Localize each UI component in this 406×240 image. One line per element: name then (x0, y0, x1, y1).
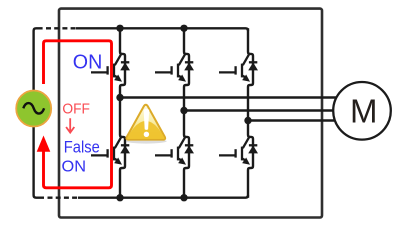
wire: phase A line to motor (120, 96, 341, 98)
warning icon exclamation dot (144, 132, 149, 137)
wire: DC+ rail solid to leg C corner (76, 28, 248, 30)
arrow glyph down (state transition) (66, 118, 74, 132)
node: phase B tap on leg B (180, 107, 187, 114)
wire: leg C vertical with diode jogs (248, 28, 253, 197)
wire: phase C line to motor (248, 119, 345, 121)
wire: phase B line to motor (184, 109, 342, 111)
node: phase C tap on leg C (244, 117, 251, 124)
wire: leg A vertical with diode jogs (120, 28, 125, 197)
svg-text:M: M (350, 92, 378, 129)
warning icon triangle (126, 105, 165, 140)
node: DC+ rail / leg B junction (180, 25, 187, 32)
red current direction arrowhead (37, 136, 51, 152)
svg-text:ON: ON (62, 158, 87, 175)
IGBT Q1 upper leg A with freewheel diode (91, 55, 129, 81)
wire: leg B vertical with diode jogs (184, 28, 189, 197)
node: DC- rail / leg A junction (116, 194, 123, 201)
wire: DC+ rail dashed segment (46, 27, 76, 29)
warning icon shadow (126, 139, 167, 144)
AC source V1 (16, 91, 51, 127)
warning icon gloss lower dome (127, 121, 164, 139)
svg-text:False: False (64, 138, 100, 157)
IGBT Q5 upper leg C with freewheel diode (219, 55, 257, 81)
wire: AC source bottom lead + DC- rail solid start (34, 122, 44, 198)
node: DC- rail / leg B junction (180, 194, 187, 201)
IGBT Q6 lower leg C with freewheel diode (219, 138, 257, 164)
motor M1 circle (333, 82, 391, 140)
warning icon exclamation bar (144, 109, 150, 130)
wire: DC- rail dashed segment (48, 196, 79, 198)
node: phase A tap on leg A (116, 94, 123, 101)
wire: DC- rail solid to leg C corner (78, 195, 248, 197)
node: DC+ rail / leg A junction (116, 25, 123, 32)
inverter enclosure box (59, 9, 322, 218)
wire: AC source top lead + DC+ rail solid start (34, 28, 43, 95)
svg-text:ON: ON (73, 52, 103, 74)
AC source sine symbol (23, 103, 44, 114)
red commutation loop highlight (44, 41, 112, 188)
svg-text:OFF: OFF (62, 101, 90, 118)
IGBT Q3 upper leg B with freewheel diode (155, 55, 193, 81)
IGBT Q2 lower leg A with freewheel diode (91, 138, 129, 164)
IGBT Q4 lower leg B with freewheel diode (155, 138, 193, 164)
